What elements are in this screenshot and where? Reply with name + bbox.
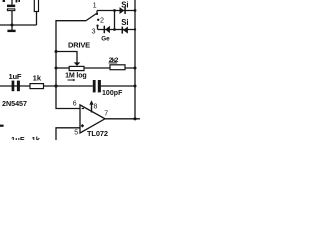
capacitor C3 100pF left plate: [93, 80, 96, 92]
diode D3 Ge cathode bar: [103, 26, 105, 34]
op-amp minus sign: [82, 108, 84, 110]
ground symbol: [7, 30, 15, 32]
wire bottom diode branch: [98, 29, 136, 31]
wire pot to 2k2 to bus: [84, 67, 135, 69]
capacitor C2 1uF left plate: [12, 81, 15, 92]
svg-text:6: 6: [73, 101, 77, 108]
capacitor C2 1uF right plate: [17, 81, 20, 92]
wire op-amp output pin7: [105, 118, 140, 120]
node junction bus-lower rail: [54, 84, 57, 87]
wire top diode branch: [97, 10, 135, 12]
wire switch arm: [86, 14, 97, 21]
svg-text:1k: 1k: [32, 135, 41, 140]
capacitor C3 100pF right plate: [98, 80, 101, 92]
resistor R3 body: [110, 65, 125, 70]
svg-text:7: 7: [104, 111, 108, 118]
svg-text:8: 8: [94, 104, 98, 111]
svg-text:1uF: 1uF: [9, 72, 22, 81]
svg-text:1uF: 1uF: [11, 135, 25, 140]
switch contact 1 dot: [96, 13, 98, 15]
taper arrow under 1M: [68, 79, 74, 81]
svg-text:2N5457: 2N5457: [2, 99, 27, 108]
svg-text:TL072: TL072: [87, 129, 108, 138]
potentiometer wiper arrow: [74, 62, 81, 66]
node junction rail-ground: [11, 24, 14, 27]
op-amp plus sign: [81, 124, 84, 127]
svg-text:100pF: 100pF: [102, 90, 123, 97]
op-amp pin 8 power arrow: [91, 104, 93, 112]
ground rail wire: [0, 24, 37, 26]
svg-text:Si: Si: [121, 18, 128, 27]
node junction bus top: [134, 9, 137, 12]
wire op-amp pin5 input and down: [56, 128, 80, 140]
switch contact 2 dot: [97, 19, 99, 21]
node junction bottom link: [113, 28, 116, 31]
svg-text:5: 5: [74, 130, 78, 137]
wire switch feed and inverting bus: [56, 21, 86, 109]
ground stub wire: [11, 25, 13, 30]
wire top lead into C1: [11, 0, 13, 5]
svg-text:3: 3: [92, 27, 96, 36]
node junction bus-bottom diode branch: [134, 28, 136, 30]
wire pot wiper feed: [56, 52, 77, 63]
svg-text:1k: 1k: [33, 73, 42, 82]
node junction bus-pot left lead: [55, 67, 58, 70]
resistor R2 1k body: [30, 84, 44, 89]
capacitor C1 polarized top plate: [7, 5, 15, 8]
diode D2 Si cathode bar: [121, 27, 123, 34]
resistor R1 lead wire: [36, 12, 38, 26]
svg-text:1: 1: [93, 3, 97, 10]
cut text fragment top uF: [16, 0, 18, 2]
diode D2 Si triangle: [123, 27, 128, 34]
diode D1 Si cathode bar: [124, 7, 126, 14]
svg-text:Ge: Ge: [101, 36, 110, 43]
svg-text:DRIVE: DRIVE: [68, 41, 90, 50]
node junction bus-100pF: [134, 85, 137, 88]
node junction top link: [113, 9, 116, 12]
wire diode middle link: [114, 11, 116, 30]
op-amp U1 triangle: [80, 105, 105, 133]
wire contact 1 stub: [96, 11, 98, 15]
wire pot left lead: [56, 67, 69, 69]
wire contact 3 stub: [97, 26, 99, 30]
capacitor C1 polarized bottom plate: [7, 9, 14, 11]
cut wire stub left edge: [0, 125, 4, 127]
resistor R3 underline: [109, 62, 118, 64]
diode D1 Si triangle: [120, 7, 125, 14]
resistor R1 body: [34, 0, 38, 12]
diode D3 Ge triangle: [105, 26, 110, 33]
wire lower rail: [0, 85, 93, 87]
wire C1 to ground rail: [11, 11, 13, 26]
switch contact 3 dot: [96, 25, 98, 27]
svg-text:Si: Si: [121, 0, 128, 9]
svg-text:2: 2: [100, 16, 104, 25]
wire 100pF to bus: [101, 85, 135, 87]
svg-text:1M log: 1M log: [65, 72, 87, 80]
node junction bus-wiper: [55, 50, 58, 53]
wire feedback bus: [134, 0, 136, 119]
potentiometer VR1 body: [69, 66, 84, 70]
node junction bus-2k2: [134, 67, 137, 70]
node junction output-bus: [133, 117, 136, 120]
cut text fragment top left: [3, 0, 5, 2]
